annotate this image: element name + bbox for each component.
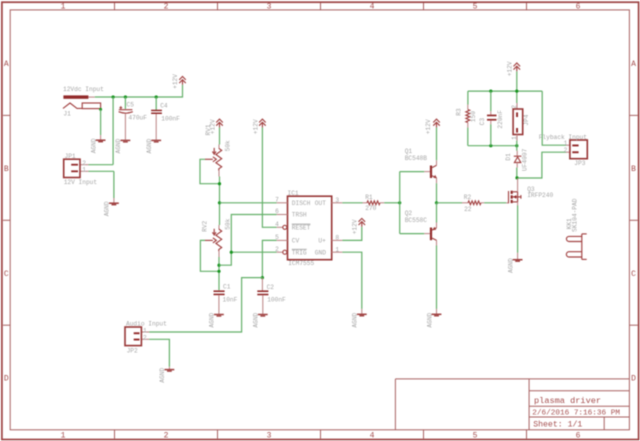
svg-text:C: C xyxy=(631,270,636,279)
svg-text:2: 2 xyxy=(143,334,147,341)
svg-text:plasma driver: plasma driver xyxy=(534,396,601,406)
svg-text:AGND: AGND xyxy=(115,138,122,153)
svg-text:AGND: AGND xyxy=(426,312,433,327)
svg-text:A: A xyxy=(4,60,9,69)
svg-text:2/6/2016 7:16:36 PM: 2/6/2016 7:16:36 PM xyxy=(532,409,620,417)
svg-text:5: 5 xyxy=(275,234,279,241)
svg-text:B: B xyxy=(631,165,636,174)
svg-text:6: 6 xyxy=(275,208,279,215)
svg-text:2: 2 xyxy=(164,431,169,440)
svg-text:Sheet: 1/1: Sheet: 1/1 xyxy=(533,420,582,430)
svg-text:GND: GND xyxy=(315,249,326,256)
svg-text:7: 7 xyxy=(275,196,279,203)
svg-text:OUT: OUT xyxy=(315,200,326,207)
svg-text:4: 4 xyxy=(275,221,279,228)
svg-text:BC548B: BC548B xyxy=(405,155,428,162)
svg-text:JP1: JP1 xyxy=(65,153,76,160)
svg-text:10nF: 10nF xyxy=(223,296,238,303)
svg-text:TRIG: TRIG xyxy=(292,249,307,256)
svg-text:220nF: 220nF xyxy=(497,110,504,129)
svg-text:Flyback Input: Flyback Input xyxy=(539,134,588,141)
svg-text:R2: R2 xyxy=(464,194,472,201)
svg-text:BC558C: BC558C xyxy=(405,217,428,224)
svg-text:150: 150 xyxy=(470,111,477,122)
svg-text:2: 2 xyxy=(511,105,518,109)
svg-text:AGND: AGND xyxy=(146,138,153,153)
svg-text:JP4: JP4 xyxy=(523,114,530,125)
svg-text:JP3: JP3 xyxy=(574,160,585,167)
svg-text:C3: C3 xyxy=(479,118,486,126)
svg-text:R3: R3 xyxy=(456,108,463,116)
svg-text:C1: C1 xyxy=(223,284,231,291)
svg-text:AGND: AGND xyxy=(253,312,260,327)
svg-text:C4: C4 xyxy=(160,103,168,110)
svg-text:D: D xyxy=(4,375,9,384)
svg-text:4: 4 xyxy=(370,431,375,440)
svg-text:50k: 50k xyxy=(225,140,232,151)
svg-text:Audio Input: Audio Input xyxy=(126,320,167,327)
svg-text:+12V: +12V xyxy=(352,219,359,234)
svg-text:D1: D1 xyxy=(505,153,512,161)
svg-text:SK104-PAD: SK104-PAD xyxy=(572,198,579,232)
svg-text:AGND: AGND xyxy=(507,258,514,273)
svg-text:IRFP240: IRFP240 xyxy=(527,192,553,199)
svg-text:C2: C2 xyxy=(267,284,275,291)
svg-text:AGND: AGND xyxy=(159,368,166,383)
svg-text:ICM7555: ICM7555 xyxy=(288,260,314,267)
svg-text:470uF: 470uF xyxy=(128,114,147,121)
svg-text:12Vdc Input: 12Vdc Input xyxy=(63,86,104,93)
svg-text:TRSH: TRSH xyxy=(292,212,307,219)
svg-text:3: 3 xyxy=(267,3,272,12)
svg-text:RESET: RESET xyxy=(292,224,311,231)
svg-text:UF4007: UF4007 xyxy=(522,148,529,171)
svg-text:8: 8 xyxy=(335,235,339,242)
svg-text:A: A xyxy=(631,60,636,69)
svg-text:3: 3 xyxy=(335,197,339,204)
svg-text:3: 3 xyxy=(267,431,272,440)
svg-text:1: 1 xyxy=(61,431,66,440)
svg-text:1: 1 xyxy=(335,246,339,253)
svg-text:DISCH: DISCH xyxy=(292,200,311,207)
svg-text:1: 1 xyxy=(143,327,147,334)
svg-text:1: 1 xyxy=(511,136,518,140)
svg-text:C5: C5 xyxy=(127,102,135,109)
svg-text:AGND: AGND xyxy=(352,312,359,327)
svg-text:AGND: AGND xyxy=(90,138,97,153)
svg-text:50k: 50k xyxy=(225,218,232,229)
svg-text:2: 2 xyxy=(564,147,568,154)
svg-text:AGND: AGND xyxy=(104,201,111,216)
svg-text:2: 2 xyxy=(275,246,279,253)
svg-text:+12V: +12V xyxy=(172,74,179,89)
svg-text:100nF: 100nF xyxy=(161,116,180,123)
svg-text:+12V: +12V xyxy=(507,61,514,76)
svg-text:100nF: 100nF xyxy=(267,297,286,304)
svg-text:2: 2 xyxy=(164,3,169,12)
svg-text:D: D xyxy=(631,375,636,384)
svg-text:6: 6 xyxy=(576,3,581,12)
svg-text:5: 5 xyxy=(473,3,478,12)
svg-text:R1: R1 xyxy=(365,194,373,201)
svg-text:CV: CV xyxy=(292,238,300,245)
svg-text:+12V: +12V xyxy=(425,119,432,134)
svg-text:4: 4 xyxy=(370,3,375,12)
svg-text:5: 5 xyxy=(473,431,478,440)
svg-text:IC1: IC1 xyxy=(288,190,299,197)
svg-text:JP2: JP2 xyxy=(127,347,138,354)
svg-text:+12V: +12V xyxy=(252,119,259,134)
svg-text:U+: U+ xyxy=(318,238,326,245)
svg-text:RV1: RV1 xyxy=(205,124,212,135)
svg-text:RV2: RV2 xyxy=(201,220,208,231)
svg-text:B: B xyxy=(4,165,9,174)
svg-text:6: 6 xyxy=(576,431,581,440)
svg-text:AGND: AGND xyxy=(209,312,216,327)
svg-text:270: 270 xyxy=(365,205,376,212)
svg-text:C: C xyxy=(4,270,9,279)
svg-text:1: 1 xyxy=(61,3,66,12)
svg-text:1: 1 xyxy=(82,167,86,174)
svg-text:J1: J1 xyxy=(63,111,71,118)
svg-text:22: 22 xyxy=(464,206,472,213)
svg-text:12V Input: 12V Input xyxy=(64,179,98,186)
